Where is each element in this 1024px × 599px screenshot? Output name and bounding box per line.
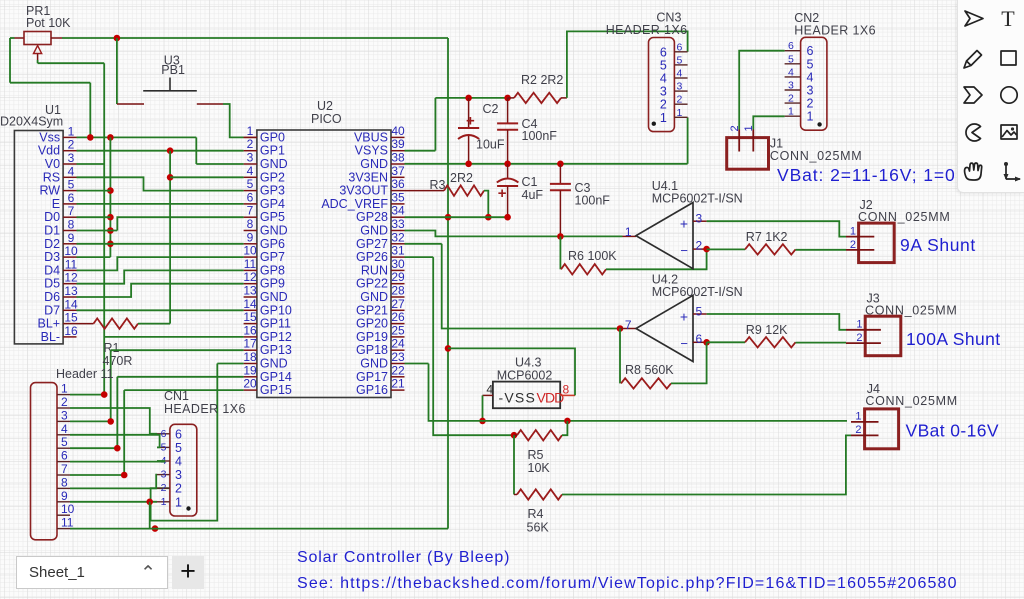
svg-text:14: 14 <box>243 297 257 311</box>
svg-text:4: 4 <box>660 72 667 86</box>
svg-text:5: 5 <box>660 58 667 72</box>
svg-text:PICO: PICO <box>311 112 342 126</box>
svg-text:GND: GND <box>360 224 388 238</box>
svg-text:6: 6 <box>61 449 68 463</box>
svg-text:VBat 0-16V: VBat 0-16V <box>906 421 1000 441</box>
svg-text:R2 2R2: R2 2R2 <box>521 73 563 87</box>
svg-text:GND: GND <box>260 157 288 171</box>
svg-text:U4.3: U4.3 <box>515 356 541 370</box>
svg-text:100A Shunt: 100A Shunt <box>906 329 1001 349</box>
svg-text:19: 19 <box>243 363 257 377</box>
svg-text:29: 29 <box>391 270 405 284</box>
svg-text:1: 1 <box>247 124 254 138</box>
svg-text:CN1: CN1 <box>164 389 189 403</box>
svg-text:GP7: GP7 <box>260 250 285 264</box>
svg-text:-VSS: -VSS <box>499 389 536 405</box>
svg-text:3: 3 <box>68 151 75 165</box>
svg-text:1: 1 <box>850 226 856 238</box>
svg-text:4: 4 <box>807 70 814 84</box>
svg-text:BL-: BL- <box>41 330 60 344</box>
svg-text:1: 1 <box>855 411 861 423</box>
svg-text:5: 5 <box>161 441 167 453</box>
svg-text:16: 16 <box>64 324 78 338</box>
svg-text:16: 16 <box>243 323 257 337</box>
svg-text:3V3OUT: 3V3OUT <box>339 184 388 198</box>
svg-text:20: 20 <box>243 377 257 391</box>
svg-text:1: 1 <box>161 496 167 508</box>
svg-text:26: 26 <box>391 310 405 324</box>
svg-text:R6 100K: R6 100K <box>568 249 617 263</box>
svg-text:1: 1 <box>625 225 632 239</box>
svg-text:1: 1 <box>856 319 862 331</box>
svg-text:MCP6002: MCP6002 <box>497 369 553 383</box>
svg-text:4uF: 4uF <box>522 188 544 202</box>
svg-text:34: 34 <box>391 204 405 218</box>
svg-text:GP1: GP1 <box>260 144 285 158</box>
svg-text:6: 6 <box>788 40 794 52</box>
svg-text:14: 14 <box>64 297 78 311</box>
svg-text:VSYS: VSYS <box>355 144 388 158</box>
svg-text:6: 6 <box>807 44 814 58</box>
svg-text:See: https://thebackshed.com/f: See: https://thebackshed.com/forum/ViewT… <box>297 575 958 592</box>
svg-text:5: 5 <box>788 53 794 65</box>
svg-text:4: 4 <box>68 164 75 178</box>
svg-text:3: 3 <box>61 408 68 422</box>
svg-text:8: 8 <box>563 383 570 397</box>
svg-text:GP11: GP11 <box>260 317 291 331</box>
svg-text:C1: C1 <box>522 175 538 189</box>
svg-text:D1: D1 <box>44 224 60 238</box>
svg-text:D5: D5 <box>44 277 60 291</box>
svg-text:100nF: 100nF <box>575 194 611 208</box>
svg-text:39: 39 <box>391 137 405 151</box>
svg-text:8: 8 <box>68 218 75 232</box>
svg-text:6: 6 <box>68 191 75 205</box>
svg-text:6: 6 <box>677 41 683 53</box>
svg-text:2: 2 <box>175 482 182 496</box>
svg-text:GND: GND <box>360 157 388 171</box>
svg-text:R8 560K: R8 560K <box>625 363 674 377</box>
svg-text:100nF: 100nF <box>522 129 558 143</box>
svg-text:VDD: VDD <box>537 389 565 405</box>
svg-text:56K: 56K <box>527 521 550 535</box>
svg-text:37: 37 <box>391 164 405 178</box>
svg-text:GP13: GP13 <box>260 343 292 357</box>
svg-text:GP18: GP18 <box>356 343 388 357</box>
svg-text:RS: RS <box>43 170 60 184</box>
svg-text:GP16: GP16 <box>356 383 388 397</box>
svg-text:R3: R3 <box>430 178 446 192</box>
svg-text:12: 12 <box>243 270 257 284</box>
svg-text:7: 7 <box>625 318 632 332</box>
svg-text:GP6: GP6 <box>260 237 285 251</box>
svg-text:GP0: GP0 <box>260 130 285 144</box>
svg-text:21: 21 <box>391 377 405 391</box>
svg-text:3: 3 <box>696 212 703 226</box>
svg-text:4: 4 <box>247 164 254 178</box>
svg-text:470R: 470R <box>103 354 133 368</box>
svg-text:3: 3 <box>677 81 683 93</box>
svg-text:C2: C2 <box>483 102 499 116</box>
svg-text:HEADER 1X6: HEADER 1X6 <box>794 24 876 38</box>
svg-text:GP22: GP22 <box>356 277 388 291</box>
svg-text:GP19: GP19 <box>356 330 388 344</box>
svg-text:3: 3 <box>788 80 794 92</box>
svg-text:5: 5 <box>61 435 68 449</box>
svg-text:VBUS: VBUS <box>354 130 388 144</box>
svg-text:6: 6 <box>161 428 167 440</box>
svg-text:−: − <box>680 336 688 351</box>
svg-text:5: 5 <box>677 54 683 66</box>
svg-text:2: 2 <box>247 137 254 151</box>
svg-text:4: 4 <box>788 66 794 78</box>
svg-text:V0: V0 <box>45 157 60 171</box>
svg-text:7: 7 <box>247 204 254 218</box>
svg-text:2: 2 <box>855 424 861 436</box>
svg-text:Header 11: Header 11 <box>56 367 113 381</box>
svg-text:Pot 10K: Pot 10K <box>26 16 71 30</box>
svg-text:5: 5 <box>175 441 182 455</box>
svg-text:6: 6 <box>247 190 254 204</box>
svg-text:D20X4Sym: D20X4Sym <box>0 115 63 129</box>
svg-text:27: 27 <box>391 297 405 311</box>
svg-text:GP26: GP26 <box>356 250 388 264</box>
svg-text:2: 2 <box>856 332 862 344</box>
svg-text:2R2: 2R2 <box>450 171 473 185</box>
svg-text:11: 11 <box>244 257 257 271</box>
svg-text:VBat: 2=11-16V; 1=0: VBat: 2=11-16V; 1=0 <box>777 165 956 185</box>
svg-text:Vdd: Vdd <box>38 144 60 158</box>
svg-text:5: 5 <box>247 177 254 191</box>
svg-text:GND: GND <box>260 357 288 371</box>
svg-text:11: 11 <box>65 257 78 271</box>
svg-text:1: 1 <box>788 106 794 118</box>
svg-text:3: 3 <box>161 469 167 481</box>
svg-text:13: 13 <box>243 284 257 298</box>
svg-text:+: + <box>680 308 688 324</box>
svg-text:10: 10 <box>243 244 257 258</box>
svg-text:GND: GND <box>260 224 288 238</box>
svg-text:R5: R5 <box>528 448 544 462</box>
svg-text:MCP6002T-I/SN: MCP6002T-I/SN <box>652 285 743 299</box>
svg-text:6: 6 <box>660 45 667 59</box>
svg-text:4: 4 <box>61 422 68 436</box>
svg-text:1: 1 <box>677 107 683 119</box>
svg-text:2: 2 <box>696 239 703 253</box>
svg-text:BL+: BL+ <box>38 317 61 331</box>
svg-text:9: 9 <box>61 489 68 503</box>
svg-text:CONN_025MM: CONN_025MM <box>865 394 957 408</box>
svg-text:6: 6 <box>175 427 182 441</box>
svg-text:GND: GND <box>360 357 388 371</box>
svg-text:3: 3 <box>807 84 814 98</box>
svg-text:2: 2 <box>161 482 167 494</box>
svg-text:GP14: GP14 <box>260 370 292 384</box>
svg-text:1: 1 <box>807 110 814 124</box>
svg-text:GP9: GP9 <box>260 277 285 291</box>
svg-text:2: 2 <box>850 239 856 251</box>
svg-text:GP17: GP17 <box>356 370 388 384</box>
svg-text:25: 25 <box>391 323 405 337</box>
svg-text:38: 38 <box>391 151 405 165</box>
svg-text:11: 11 <box>61 516 74 530</box>
svg-text:31: 31 <box>391 244 405 258</box>
svg-text:D2: D2 <box>44 237 60 251</box>
svg-text:Solar Controller (By Bleep): Solar Controller (By Bleep) <box>297 549 510 566</box>
svg-text:9: 9 <box>68 231 75 245</box>
svg-text:D7: D7 <box>44 303 60 317</box>
svg-text:9A Shunt: 9A Shunt <box>900 235 976 255</box>
svg-text:15: 15 <box>64 311 78 325</box>
svg-text:10K: 10K <box>528 461 551 475</box>
svg-text:GP28: GP28 <box>356 210 388 224</box>
svg-text:D4: D4 <box>44 263 60 277</box>
svg-text:5: 5 <box>807 57 814 71</box>
svg-text:RW: RW <box>39 184 60 198</box>
svg-text:R4: R4 <box>528 507 544 521</box>
svg-text:GP20: GP20 <box>356 317 388 331</box>
svg-text:2: 2 <box>788 93 794 105</box>
svg-text:GP5: GP5 <box>260 210 285 224</box>
svg-text:2: 2 <box>677 94 683 106</box>
svg-text:+: + <box>498 185 507 202</box>
svg-text:30: 30 <box>391 257 405 271</box>
svg-text:GP4: GP4 <box>260 197 285 211</box>
svg-text:GP8: GP8 <box>260 263 285 277</box>
svg-text:2: 2 <box>68 138 75 152</box>
svg-text:HEADER 1X6: HEADER 1X6 <box>164 402 246 416</box>
svg-text:GP2: GP2 <box>260 170 285 184</box>
svg-text:3: 3 <box>247 151 254 165</box>
svg-text:33: 33 <box>391 217 405 231</box>
svg-text:2: 2 <box>61 395 68 409</box>
svg-text:GND: GND <box>360 290 388 304</box>
svg-text:10: 10 <box>64 244 78 258</box>
svg-text:3: 3 <box>175 468 182 482</box>
svg-text:9: 9 <box>247 230 254 244</box>
svg-text:−: − <box>680 243 688 258</box>
svg-text:7: 7 <box>68 204 75 218</box>
svg-text:D3: D3 <box>44 250 60 264</box>
svg-text:D6: D6 <box>44 290 60 304</box>
svg-text:10uF: 10uF <box>476 138 505 152</box>
svg-text:GND: GND <box>260 290 288 304</box>
svg-text:4: 4 <box>175 455 182 469</box>
svg-text:7: 7 <box>61 462 68 476</box>
svg-text:+: + <box>680 216 688 232</box>
svg-text:4: 4 <box>486 383 493 397</box>
svg-text:23: 23 <box>391 350 405 364</box>
svg-text:36: 36 <box>391 177 405 191</box>
svg-text:T: T <box>1001 6 1015 31</box>
svg-text:RUN: RUN <box>361 263 388 277</box>
svg-text:R9 12K: R9 12K <box>746 323 788 337</box>
svg-text:CONN_025MM: CONN_025MM <box>770 149 862 163</box>
svg-text:GP15: GP15 <box>260 383 292 397</box>
svg-text:U2: U2 <box>317 99 333 113</box>
svg-text:1: 1 <box>61 382 68 396</box>
svg-text:4: 4 <box>677 68 683 80</box>
svg-text:1: 1 <box>660 111 667 125</box>
svg-text:24: 24 <box>391 337 405 351</box>
svg-text:35: 35 <box>391 190 405 204</box>
svg-text:8: 8 <box>247 217 254 231</box>
svg-text:18: 18 <box>243 350 257 364</box>
svg-text:6: 6 <box>696 332 703 346</box>
svg-text:2: 2 <box>807 97 814 111</box>
svg-text:MCP6002T-I/SN: MCP6002T-I/SN <box>652 192 743 206</box>
svg-text:+: + <box>466 112 475 129</box>
svg-text:40: 40 <box>391 124 405 138</box>
svg-text:GP21: GP21 <box>356 303 388 317</box>
svg-text:E: E <box>52 197 60 211</box>
svg-text:10: 10 <box>61 502 75 516</box>
svg-text:HEADER 1X6: HEADER 1X6 <box>606 23 688 37</box>
svg-text:5: 5 <box>68 178 75 192</box>
svg-text:32: 32 <box>391 230 405 244</box>
svg-text:GP10: GP10 <box>260 303 292 317</box>
svg-text:ADC_VREF: ADC_VREF <box>321 197 388 211</box>
svg-text:PB1: PB1 <box>161 63 185 77</box>
svg-text:8: 8 <box>61 475 68 489</box>
svg-text:GP27: GP27 <box>356 237 388 251</box>
svg-text:12: 12 <box>64 271 78 285</box>
svg-text:1: 1 <box>68 124 75 138</box>
svg-text:GP3: GP3 <box>260 184 285 198</box>
svg-text:13: 13 <box>64 284 78 298</box>
svg-text:3V3EN: 3V3EN <box>348 170 388 184</box>
svg-text:GP12: GP12 <box>260 330 292 344</box>
svg-text:D0: D0 <box>44 210 60 224</box>
svg-text:Vss: Vss <box>39 130 60 144</box>
svg-text:22: 22 <box>391 363 405 377</box>
svg-text:5: 5 <box>696 305 703 319</box>
svg-text:R7 1K2: R7 1K2 <box>746 230 788 244</box>
svg-text:2: 2 <box>660 98 667 112</box>
svg-text:17: 17 <box>243 337 257 351</box>
svg-text:28: 28 <box>391 284 405 298</box>
svg-text:1: 1 <box>175 495 182 509</box>
svg-text:3: 3 <box>660 85 667 99</box>
svg-text:15: 15 <box>243 310 257 324</box>
